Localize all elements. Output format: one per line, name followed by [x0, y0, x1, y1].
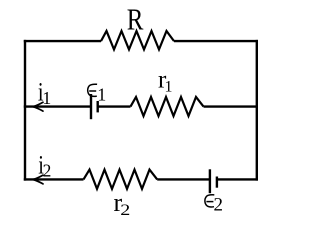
battery E1 long plate	[90, 94, 92, 119]
svg-text:2: 2	[214, 194, 224, 215]
label epsilon1 (EMF symbol)	[88, 84, 97, 96]
battery E2 short plate	[216, 177, 218, 188]
wire right border	[256, 40, 258, 181]
resistor R	[101, 31, 174, 50]
battery E1 short plate	[96, 101, 98, 112]
label i1	[38, 78, 51, 108]
wire middle center segment	[98, 105, 131, 107]
wire top right segment	[174, 40, 258, 42]
arrowhead current i2	[33, 175, 43, 184]
svg-text:2: 2	[120, 201, 130, 218]
wire top left segment	[24, 40, 101, 42]
svg-text:1: 1	[42, 88, 51, 108]
wire bottom center segment	[157, 178, 210, 180]
label r1	[158, 67, 173, 96]
label i2	[38, 151, 51, 180]
wire middle left segment	[24, 105, 91, 107]
wire middle right segment	[204, 105, 259, 107]
arrowhead current i1	[33, 102, 43, 111]
wire left border	[24, 40, 26, 181]
wire bottom right segment	[217, 178, 258, 180]
label r2	[114, 188, 131, 218]
svg-text:R: R	[127, 3, 144, 37]
resistor r1	[131, 97, 204, 116]
battery E2 long plate	[209, 169, 211, 193]
label epsilon2 (EMF symbol)	[205, 195, 214, 207]
svg-text:1: 1	[97, 84, 106, 104]
svg-text:2: 2	[43, 161, 52, 181]
resistor r2	[84, 170, 158, 189]
wire bottom left segment	[24, 178, 84, 180]
svg-text:1: 1	[165, 79, 173, 96]
